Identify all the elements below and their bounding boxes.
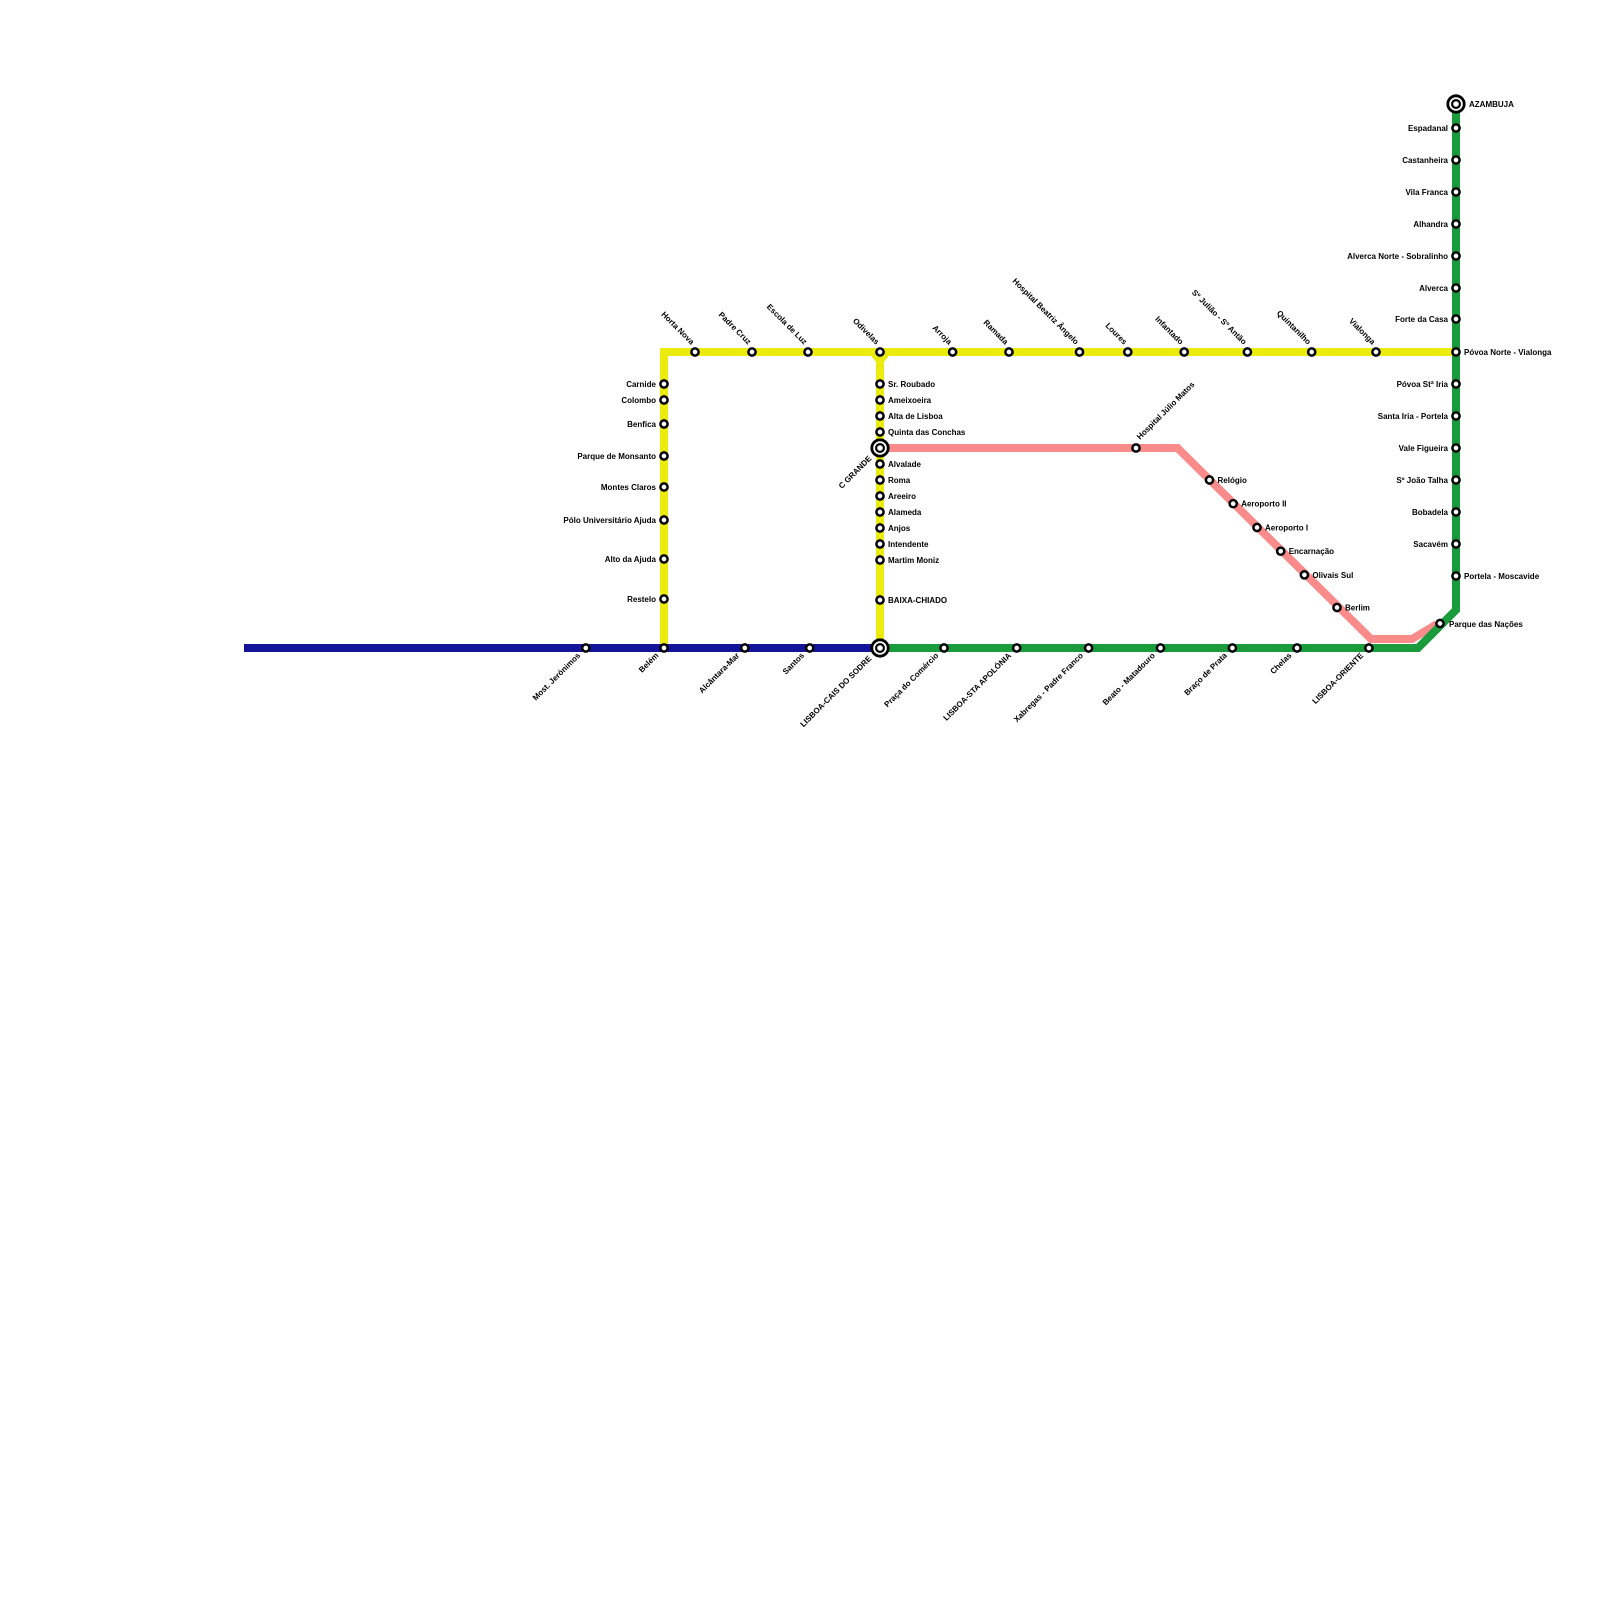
svg-text:Areeiro: Areeiro — [888, 492, 916, 501]
station Loures — [1124, 348, 1131, 355]
yellow line middle vertical (Odivelas - Cais do Sodre) — [876, 352, 884, 648]
svg-text:Espadanal: Espadanal — [1408, 124, 1448, 133]
svg-text:Encarnação: Encarnação — [1289, 547, 1334, 556]
station Hospital Beatriz Ângelo — [1076, 348, 1083, 355]
station Quinta das Conchas — [876, 428, 883, 435]
svg-text:Alto da Ajuda: Alto da Ajuda — [605, 555, 657, 564]
station Intendente — [876, 540, 883, 547]
interchange C GRANDE (Campo Grande) — [872, 440, 888, 456]
station Alvalade — [876, 460, 883, 467]
svg-text:Olivais Sul: Olivais Sul — [1312, 571, 1353, 580]
station Vialonga — [1372, 348, 1379, 355]
station Encarnação — [1277, 548, 1284, 555]
station Carnide — [660, 380, 667, 387]
station Benfica — [660, 420, 667, 427]
station Alameda — [876, 508, 883, 515]
svg-text:Berlim: Berlim — [1345, 604, 1370, 613]
station Chelas — [1293, 644, 1300, 651]
svg-text:Bobadela: Bobadela — [1412, 508, 1449, 517]
svg-text:Aeroporto I: Aeroporto I — [1265, 524, 1308, 533]
station Martim Moniz — [876, 556, 883, 563]
terminal station AZAMBUJA — [1448, 96, 1464, 112]
station Parque de Monsanto — [660, 452, 667, 459]
station Colombo — [660, 396, 667, 403]
svg-text:Montes Claros: Montes Claros — [601, 483, 657, 492]
svg-text:BAIXA-CHIADO: BAIXA-CHIADO — [888, 596, 947, 605]
svg-text:Carnide: Carnide — [626, 380, 656, 389]
svg-text:Vila Franca: Vila Franca — [1405, 188, 1448, 197]
svg-text:Roma: Roma — [888, 476, 911, 485]
station Forte da Casa — [1452, 315, 1459, 322]
svg-text:Parque das Nações: Parque das Nações — [1449, 620, 1523, 629]
svg-text:Parque de Monsanto: Parque de Monsanto — [577, 452, 656, 461]
station Montes Claros — [660, 483, 667, 490]
station Berlim — [1333, 604, 1340, 611]
station Alta de Lisboa — [876, 412, 883, 419]
svg-text:Alvalade: Alvalade — [888, 460, 921, 469]
svg-text:Póvoa Stª Iria: Póvoa Stª Iria — [1397, 380, 1449, 389]
station Alcântara-Mar — [741, 644, 748, 651]
station Bobadela — [1452, 508, 1459, 515]
station Quintanilho — [1308, 348, 1315, 355]
station Braço de Prata — [1229, 644, 1236, 651]
blue line (Cascais) — [244, 644, 880, 652]
svg-text:Alhandra: Alhandra — [1413, 220, 1448, 229]
station Aeroporto I — [1253, 524, 1260, 531]
svg-text:Intendente: Intendente — [888, 540, 929, 549]
station Aeroporto II — [1230, 500, 1237, 507]
station Roma — [876, 476, 883, 483]
svg-text:Póvoa Norte - Vialonga: Póvoa Norte - Vialonga — [1464, 348, 1552, 357]
station Portela - Moscavide — [1452, 572, 1459, 579]
station Vila Franca — [1452, 188, 1459, 195]
station Sacavém — [1452, 540, 1459, 547]
station Sº João Talha — [1452, 476, 1459, 483]
svg-text:Alta de Lisboa: Alta de Lisboa — [888, 412, 943, 421]
green line (riverfront + Azambuja) — [880, 104, 1456, 648]
svg-text:AZAMBUJA: AZAMBUJA — [1469, 100, 1514, 109]
station Xabregas - Padre Franco — [1085, 644, 1092, 651]
station LISBOA-ORIENTE — [1365, 644, 1372, 651]
station Most. Jerónimos — [582, 644, 589, 651]
station Anjos — [876, 524, 883, 531]
svg-text:Santa Iria - Portela: Santa Iria - Portela — [1378, 412, 1449, 421]
svg-text:Ameixoeira: Ameixoeira — [888, 396, 932, 405]
svg-text:Portela - Moscavide: Portela - Moscavide — [1464, 572, 1540, 581]
svg-text:Martim Moniz: Martim Moniz — [888, 556, 939, 565]
station Horta Nova — [691, 348, 698, 355]
station Belém — [660, 644, 667, 651]
svg-text:Sº João Talha: Sº João Talha — [1396, 476, 1448, 485]
station Arroja — [949, 348, 956, 355]
station Padre Cruz — [748, 348, 755, 355]
station Sr. Roubado — [876, 380, 883, 387]
station LISBOA-STA APOLÓNIA — [1013, 644, 1020, 651]
station Odivelas — [876, 348, 883, 355]
station Parque das Nações — [1436, 620, 1443, 627]
station Póvoa Norte - Vialonga (junction) — [1452, 348, 1459, 355]
station Castanheira — [1452, 156, 1459, 163]
svg-text:Pólo Universitário Ajuda: Pólo Universitário Ajuda — [563, 516, 656, 525]
station Sº Julião - Sº Antão — [1244, 348, 1251, 355]
station Alto da Ajuda — [660, 555, 667, 562]
station Hospital Júlio Matos — [1132, 444, 1139, 451]
station Santos — [806, 644, 813, 651]
svg-text:Vale Figueira: Vale Figueira — [1399, 444, 1449, 453]
station Alverca Norte - Sobralinho — [1452, 252, 1459, 259]
station Infantado — [1181, 348, 1188, 355]
station Póvoa Stª Iria — [1452, 380, 1459, 387]
svg-text:Quinta das Conchas: Quinta das Conchas — [888, 428, 966, 437]
svg-text:Restelo: Restelo — [627, 595, 656, 604]
station Espadanal — [1452, 124, 1459, 131]
station Relógio — [1206, 476, 1213, 483]
station Ameixoeira — [876, 396, 883, 403]
station Restelo — [660, 595, 667, 602]
svg-text:Alverca Norte - Sobralinho: Alverca Norte - Sobralinho — [1347, 252, 1448, 261]
svg-text:Sr. Roubado: Sr. Roubado — [888, 380, 935, 389]
station Ramada — [1005, 348, 1012, 355]
svg-text:Sacavém: Sacavém — [1413, 540, 1448, 549]
svg-text:Anjos: Anjos — [888, 524, 911, 533]
svg-text:Alameda: Alameda — [888, 508, 922, 517]
svg-text:Aeroporto II: Aeroporto II — [1241, 500, 1286, 509]
svg-text:Forte da Casa: Forte da Casa — [1395, 315, 1448, 324]
svg-text:Relógio: Relógio — [1218, 476, 1247, 485]
svg-text:Castanheira: Castanheira — [1402, 156, 1448, 165]
interchange LISBOA-CAIS DO SODRE — [872, 640, 888, 656]
station Santa Iria - Portela — [1452, 412, 1459, 419]
station Escola de Luz — [804, 348, 811, 355]
station Alhandra — [1452, 220, 1459, 227]
svg-text:Benfica: Benfica — [627, 420, 656, 429]
station Areeiro — [876, 492, 883, 499]
svg-text:Alverca: Alverca — [1419, 284, 1448, 293]
station Alverca — [1452, 284, 1459, 291]
station BAIXA-CHIADO — [876, 596, 883, 603]
station Pólo Universitário Ajuda — [660, 516, 667, 523]
yellow line (Belem - Povoa Norte) L-shape — [664, 352, 1456, 648]
yellow T-junction flare at Odivelas — [869, 353, 891, 362]
station Praça do Comércio — [940, 644, 947, 651]
station Olivais Sul — [1301, 571, 1308, 578]
svg-text:Colombo: Colombo — [621, 396, 656, 405]
station Beato - Matadouro — [1157, 644, 1164, 651]
pink airport line — [884, 448, 1437, 639]
station Vale Figueira — [1452, 444, 1459, 451]
